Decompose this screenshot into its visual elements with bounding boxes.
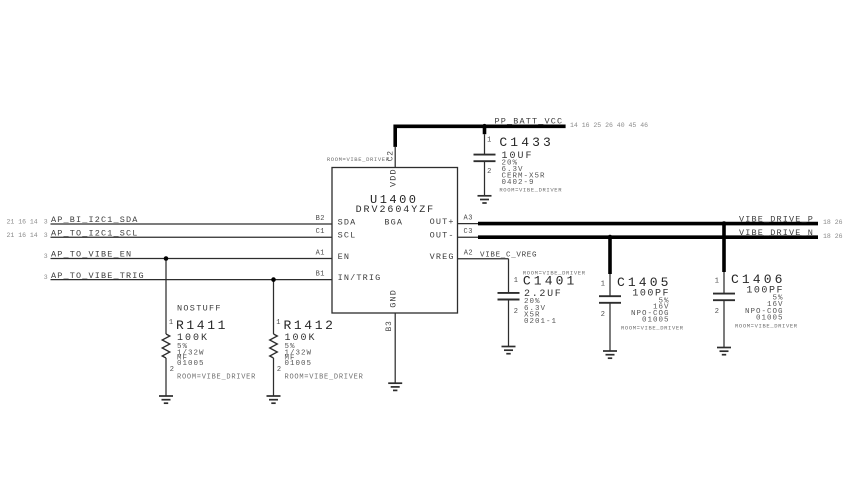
- svg-text:GND: GND: [389, 289, 399, 308]
- svg-text:2: 2: [487, 168, 492, 176]
- svg-text:2: 2: [715, 308, 720, 316]
- svg-text:VIBE_DRIVE_N: VIBE_DRIVE_N: [739, 228, 814, 238]
- svg-text:21 16 14: 21 16 14: [7, 219, 38, 226]
- svg-text:AP_TO_VIBE_TRIG: AP_TO_VIBE_TRIG: [51, 271, 145, 281]
- svg-text:3: 3: [44, 253, 48, 260]
- svg-text:2: 2: [601, 311, 606, 319]
- svg-text:C3: C3: [464, 228, 473, 236]
- svg-text:VIBE_DRIVE_P: VIBE_DRIVE_P: [739, 214, 814, 224]
- svg-text:AP_BI_I2C1_SDA: AP_BI_I2C1_SDA: [51, 215, 139, 225]
- svg-text:SCL: SCL: [338, 231, 357, 241]
- svg-text:01005: 01005: [177, 360, 205, 368]
- svg-text:VREG: VREG: [430, 252, 455, 262]
- svg-text:1: 1: [487, 137, 492, 145]
- svg-text:BGA: BGA: [384, 217, 403, 227]
- svg-text:ROOM=VIBE_DRIVER: ROOM=VIBE_DRIVER: [327, 156, 390, 163]
- svg-text:OUT+: OUT+: [430, 217, 455, 227]
- svg-text:ROOM=VIBE_DRIVER: ROOM=VIBE_DRIVER: [735, 322, 798, 329]
- svg-text:B1: B1: [316, 270, 325, 278]
- svg-text:3: 3: [44, 274, 48, 281]
- svg-text:1: 1: [514, 277, 519, 285]
- svg-text:B2: B2: [316, 215, 325, 223]
- svg-text:01005: 01005: [285, 360, 313, 368]
- svg-text:A2: A2: [464, 249, 473, 257]
- svg-text:SDA: SDA: [338, 217, 357, 227]
- svg-text:B3: B3: [385, 320, 394, 331]
- svg-text:1: 1: [169, 319, 174, 327]
- svg-text:01005: 01005: [756, 314, 784, 322]
- svg-text:2: 2: [170, 366, 175, 374]
- svg-text:ROOM=VIBE_DRIVER: ROOM=VIBE_DRIVER: [621, 324, 684, 331]
- svg-text:ROOM=VIBE_DRIVER: ROOM=VIBE_DRIVER: [285, 373, 364, 381]
- svg-text:OUT-: OUT-: [430, 231, 455, 241]
- svg-text:DRV2604YZF: DRV2604YZF: [356, 205, 436, 216]
- svg-text:A1: A1: [316, 249, 325, 257]
- svg-text:VDD: VDD: [389, 168, 399, 187]
- svg-text:3: 3: [44, 232, 48, 239]
- svg-text:C1433: C1433: [499, 135, 554, 150]
- svg-text:2: 2: [277, 366, 282, 374]
- svg-text:AP_TO_I2C1_SCL: AP_TO_I2C1_SCL: [51, 229, 139, 239]
- svg-text:18 26: 18 26: [823, 233, 843, 240]
- svg-text:14 16 25 26 40 45 46: 14 16 25 26 40 45 46: [570, 122, 648, 129]
- svg-text:2: 2: [514, 308, 519, 316]
- svg-text:1: 1: [715, 278, 720, 286]
- svg-text:EN: EN: [338, 252, 351, 262]
- svg-text:C1: C1: [316, 228, 325, 236]
- svg-text:PP_BATT_VCC: PP_BATT_VCC: [495, 116, 564, 126]
- svg-text:VIBE_C_VREG: VIBE_C_VREG: [480, 251, 537, 259]
- svg-text:IN/TRIG: IN/TRIG: [338, 273, 382, 283]
- svg-text:21 16 14: 21 16 14: [7, 232, 38, 239]
- svg-text:ROOM=VIBE_DRIVER: ROOM=VIBE_DRIVER: [177, 373, 256, 381]
- svg-text:18 26: 18 26: [823, 219, 843, 226]
- svg-text:ROOM=VIBE_DRIVER: ROOM=VIBE_DRIVER: [499, 186, 562, 193]
- svg-text:0201-1: 0201-1: [524, 318, 557, 326]
- svg-text:3: 3: [44, 219, 48, 226]
- svg-text:1: 1: [601, 281, 606, 289]
- svg-text:AP_TO_VIBE_EN: AP_TO_VIBE_EN: [51, 250, 132, 260]
- svg-text:R1412: R1412: [284, 318, 336, 333]
- svg-text:1: 1: [276, 319, 281, 327]
- svg-text:R1411: R1411: [176, 318, 228, 333]
- svg-text:01005: 01005: [642, 316, 670, 324]
- svg-text:C1401: C1401: [523, 274, 578, 289]
- svg-text:A3: A3: [464, 214, 473, 222]
- svg-text:NOSTUFF: NOSTUFF: [177, 303, 222, 313]
